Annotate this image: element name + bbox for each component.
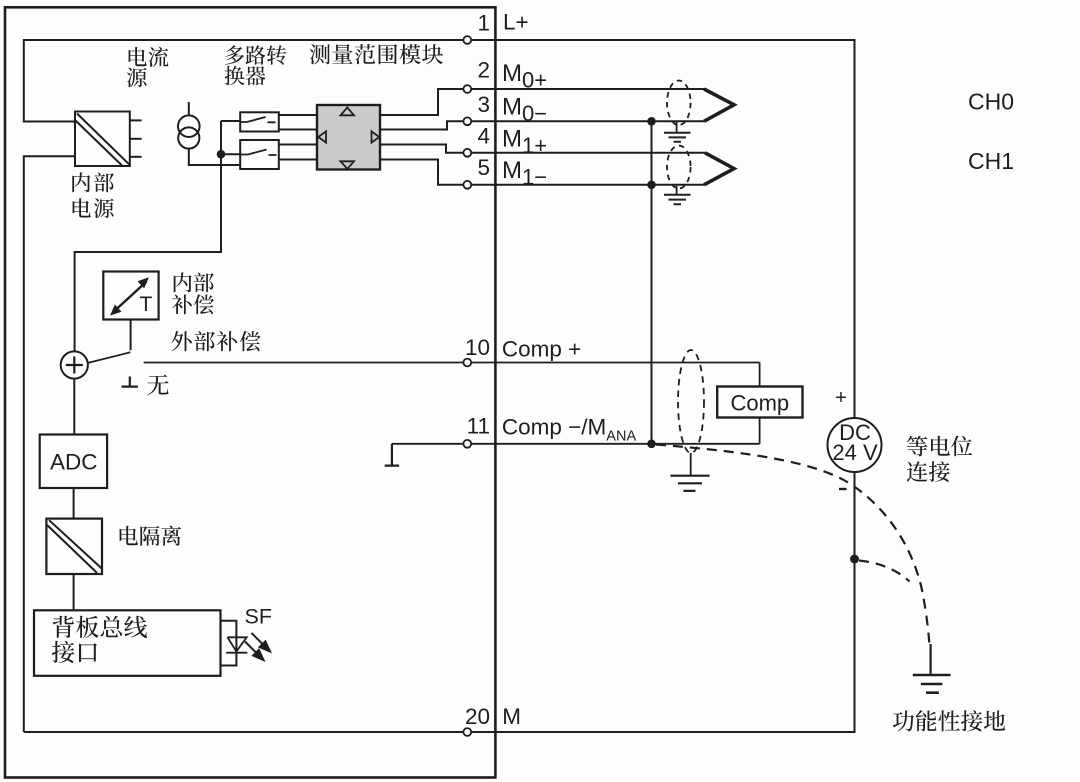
svg-text:L+: L+ (503, 10, 529, 35)
label 测量范围模块 measuring range module (310, 44, 443, 64)
module frame (analog input module boundary) (5, 7, 495, 777)
svg-text:4: 4 (477, 123, 490, 148)
wire external right rail upper (L+ to DC24V) (854, 39, 856, 418)
wire to functional earth ground (929, 644, 931, 675)
svg-text:20: 20 (465, 704, 490, 729)
terminal 11 circle (463, 440, 471, 448)
summing point circle + (61, 351, 88, 378)
junction dot on mux rail (217, 150, 226, 159)
ground MANA (left of terminal 11) (385, 444, 399, 466)
shield drain wire CH1 (676, 186, 678, 195)
svg-text:CH1: CH1 (968, 148, 1014, 174)
current source symbol 电流源 (two overlapping circles) (178, 102, 240, 165)
minus label at DC24V (839, 488, 847, 490)
label 功能性接地 functional earth (893, 710, 1006, 731)
wire L+ rail (terminal 1 to DC24V +) (24, 39, 855, 41)
thermocouple CH1 junction arrow (704, 153, 734, 185)
label 电流源 current source (129, 47, 169, 67)
junction dot M1- (647, 181, 656, 190)
ADC box (40, 435, 107, 489)
wires switch S1 to range module (279, 145, 317, 160)
no-compensation contact symbol (122, 377, 139, 387)
wire left rail lower (internal power output down to M rail) (24, 156, 75, 732)
svg-text:1: 1 (477, 10, 490, 35)
wire T box to switch contact (130, 320, 132, 351)
measuring range module 测量范围模块 (gray box with triangles) (317, 105, 380, 170)
svg-text:+: + (835, 387, 847, 409)
svg-text:SF: SF (245, 605, 272, 629)
power supply right stub 3 (130, 156, 142, 158)
wire external compensation (to terminal 10 and Comp box) (144, 362, 760, 364)
switch box S1 (channel 1) (240, 140, 279, 169)
shield ellipse CH0 (dashed) (667, 81, 691, 126)
dashed equipotential bonding curve (MANA to DC24V minus) (656, 445, 929, 644)
terminal 2 circle (463, 85, 471, 93)
wire to switch 2 (221, 153, 240, 155)
terminal 3 circle (463, 117, 471, 125)
Comp box (external compensation) (717, 387, 802, 418)
DC 24V supply circle (828, 418, 882, 472)
thermocouple CH0 junction arrow (704, 89, 734, 121)
ground CH0 shield (664, 133, 691, 142)
label 外部补偿 external compensation (171, 331, 260, 351)
ground Comp shield (670, 476, 709, 491)
functional earth ground symbol (913, 675, 951, 693)
label 等电位连接 equipotential bonding (907, 436, 972, 457)
wire external right rail lower (DC24V - to M rail) (854, 472, 856, 733)
LED diode symbol (226, 637, 247, 652)
terminal 4 circle (463, 149, 471, 157)
svg-text:Comp +: Comp + (502, 336, 581, 361)
wire range module to terminal 4 (380, 145, 705, 153)
wire range module to terminal 5 (380, 160, 704, 185)
junction dot M0- (647, 117, 656, 126)
shield drain wire CH0 (676, 122, 678, 133)
LED light arrow 1 (252, 633, 272, 653)
svg-text:CH0: CH0 (968, 89, 1014, 115)
svg-text:5: 5 (477, 155, 490, 180)
svg-text:3: 3 (477, 92, 490, 117)
wire range module to terminal 2 (380, 89, 705, 115)
dashed curve to functional earth (859, 561, 910, 582)
label 多路转换器 multiplexer (225, 45, 286, 64)
terminal 1 circle (463, 36, 471, 44)
LED light arrow 2 (245, 642, 265, 662)
Comp shield drain wire (690, 453, 692, 476)
wire Comp box vertical (759, 363, 761, 444)
wire summing point to ADC (73, 379, 75, 435)
shield ellipse CH1 (dashed) (667, 146, 691, 189)
wire to switch 1 (221, 120, 240, 122)
wire Comp- / MANA (terminal 11) (392, 443, 760, 445)
internal power supply box 内部电源 (75, 112, 130, 167)
svg-text:11: 11 (467, 413, 490, 438)
internal compensation box (T sensor) (103, 272, 158, 320)
svg-text:ADC: ADC (50, 450, 98, 475)
wires switch S0 to range module (279, 115, 317, 130)
svg-text:Comp: Comp (730, 391, 789, 416)
terminal 10 circle (463, 359, 471, 367)
wire range module to terminal 3 (380, 121, 704, 129)
terminal 20 circle (463, 728, 471, 736)
junction dot Comp- shield bus (647, 440, 656, 449)
terminal 5 circle (463, 181, 471, 189)
power supply right stub 1 (130, 119, 142, 121)
wire ADC to isolation (73, 488, 75, 519)
label 背板总线接口 backplane bus interface (53, 616, 147, 638)
wire mux rail vertical (75, 121, 221, 352)
svg-text:2: 2 (477, 58, 490, 83)
label 电隔离 electrical isolation (120, 526, 182, 546)
wire M rail (terminal 20 to DC24V -) (24, 731, 855, 733)
svg-text:10: 10 (465, 335, 490, 360)
switch box S0 (channel 0) (240, 112, 279, 131)
svg-text:T: T (140, 293, 153, 316)
SF LED loop wiring (221, 621, 237, 666)
wire isolation to backplane interface (73, 574, 75, 610)
junction dot equipotential bonding (850, 555, 859, 564)
backplane bus interface box 背板总线接口 (34, 610, 221, 676)
label 无 none (147, 375, 168, 396)
wire shield bus vertical (M0-/M1- to MANA) (651, 121, 653, 444)
galvanic isolation box 电隔离 (46, 519, 102, 574)
wire left rail upper (L+ down to internal power input) (24, 39, 75, 122)
Comp shield ellipse (dashed) (678, 350, 704, 453)
ground CH1 shield (664, 195, 691, 204)
label 内部电源 internal power supply (72, 172, 114, 192)
label 内部补偿 internal compensation (174, 272, 214, 292)
svg-text:24 V: 24 V (832, 440, 878, 465)
svg-text:M: M (502, 704, 521, 729)
power supply right stub 2 (130, 138, 142, 140)
compensation selector switch arm (88, 352, 130, 363)
